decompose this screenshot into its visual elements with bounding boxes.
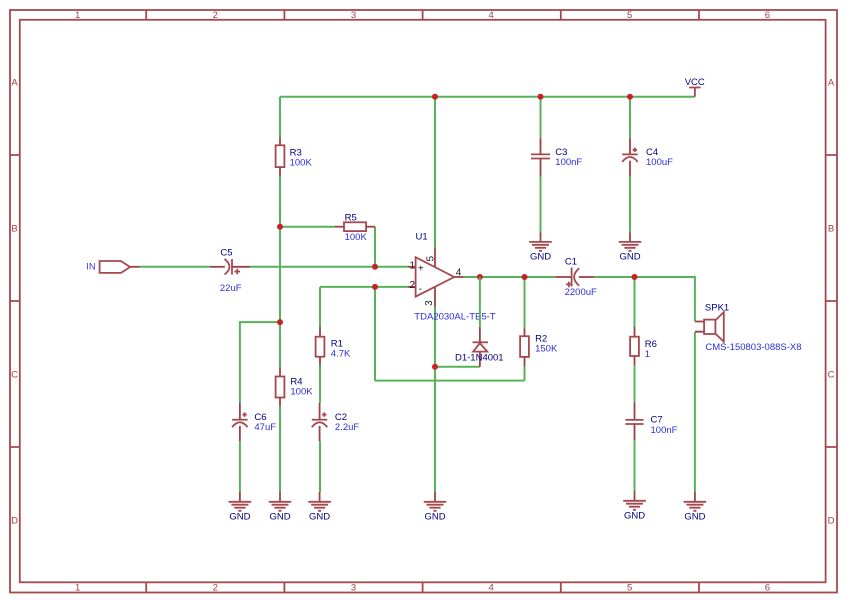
capacitor C4	[622, 138, 673, 176]
wire rail to C3	[540, 97, 542, 138]
svg-text:R5: R5	[345, 212, 357, 223]
capacitor C5	[210, 247, 250, 293]
wire output D1 drop	[479, 277, 481, 327]
junction bias node	[277, 224, 283, 230]
ground C2	[308, 492, 331, 523]
wire IN port to C5	[140, 266, 210, 268]
capacitor C7	[625, 403, 677, 441]
wire rail to U1 pin5	[434, 97, 436, 248]
svg-text:100nF: 100nF	[651, 425, 678, 436]
svg-text:C1: C1	[565, 256, 577, 267]
ground C7	[623, 491, 646, 522]
wire output net to R6	[634, 277, 636, 327]
wire R2 top to output net	[524, 277, 526, 329]
resistor R1	[316, 327, 351, 366]
svg-text:5: 5	[627, 10, 632, 21]
wire C4 to ground	[629, 177, 631, 233]
wire speaker lower pin to ground	[694, 332, 696, 492]
ground C4	[619, 232, 642, 263]
svg-text:TDA2030AL-TB5-T: TDA2030AL-TB5-T	[414, 311, 496, 322]
wire U1 pin3 to ground	[434, 307, 436, 492]
svg-text:4: 4	[488, 583, 493, 594]
svg-text:GND: GND	[269, 512, 290, 523]
svg-text:D: D	[828, 516, 835, 527]
svg-text:2: 2	[410, 280, 416, 291]
wire C6 to ground	[239, 441, 241, 492]
svg-text:5: 5	[425, 256, 436, 262]
svg-text:+: +	[418, 264, 424, 275]
resistor R3	[276, 137, 313, 176]
svg-text:100K: 100K	[290, 158, 313, 169]
svg-text:1: 1	[410, 260, 416, 271]
wire inverting input horizontal	[320, 286, 408, 288]
svg-text:3: 3	[351, 10, 356, 21]
svg-text:4.7K: 4.7K	[331, 348, 351, 359]
capacitor C2	[312, 403, 360, 442]
wire inverting input down to R1	[319, 287, 321, 327]
svg-text:B: B	[828, 224, 834, 235]
svg-text:47uF: 47uF	[254, 422, 276, 433]
svg-text:GND: GND	[530, 252, 551, 263]
resistor R6	[630, 327, 657, 365]
ground C3	[529, 232, 552, 263]
svg-text:100uF: 100uF	[646, 157, 673, 168]
capacitor C1	[555, 256, 597, 298]
svg-text:2200uF: 2200uF	[565, 287, 597, 298]
junction bias-C6	[277, 319, 283, 325]
svg-text:CMS-150803-088S-X8: CMS-150803-088S-X8	[705, 342, 801, 353]
svg-text:100nF: 100nF	[555, 157, 582, 168]
svg-text:100K: 100K	[345, 232, 368, 243]
svg-text:1: 1	[645, 349, 650, 360]
svg-text:VCC: VCC	[685, 77, 705, 88]
svg-text:3: 3	[424, 300, 435, 306]
svg-text:C5: C5	[220, 247, 232, 258]
wire R3 column upper	[279, 97, 281, 138]
junction output-D1	[477, 274, 483, 280]
wire bias node to R5 left	[280, 226, 335, 228]
wire top power rail	[280, 96, 695, 98]
wire R3 column lower to bias node	[279, 176, 281, 322]
svg-text:U1: U1	[416, 232, 428, 243]
svg-text:6: 6	[765, 583, 770, 594]
wire U1 output to C1	[464, 276, 556, 278]
svg-text:GND: GND	[309, 512, 330, 523]
wire rail to C4	[629, 97, 631, 138]
svg-text:GND: GND	[624, 511, 645, 522]
svg-text:22uF: 22uF	[220, 283, 242, 294]
svg-text:100K: 100K	[290, 386, 313, 397]
wire C2 to ground	[319, 441, 321, 492]
svg-text:2.2uF: 2.2uF	[335, 422, 359, 433]
junction output-R2	[522, 274, 528, 280]
svg-text:GND: GND	[229, 512, 250, 523]
svg-text:GND: GND	[684, 512, 705, 523]
port IN	[86, 261, 139, 273]
svg-text:A: A	[828, 78, 835, 89]
svg-text:SPK1: SPK1	[705, 303, 729, 314]
svg-text:4: 4	[488, 10, 493, 21]
svg-text:D: D	[11, 516, 18, 527]
ground U1 pin3	[424, 492, 447, 523]
svg-text:D1-1N4001: D1-1N4001	[455, 353, 504, 364]
wire feedback bottom horizontal	[375, 380, 525, 382]
speaker SPK1	[695, 303, 802, 354]
wire R6 to C7	[634, 365, 636, 402]
wire C3 to ground	[540, 177, 542, 233]
wire R4 to ground	[279, 406, 281, 492]
ground C6	[229, 492, 252, 523]
ground SPK1	[684, 492, 707, 523]
wire feedback up to R2 bottom	[524, 366, 526, 380]
svg-text:1: 1	[75, 583, 80, 594]
op-amp U1	[408, 232, 496, 323]
svg-text:GND: GND	[619, 252, 640, 263]
svg-text:C: C	[11, 370, 18, 381]
wire D1 bottom to pin3 net	[435, 366, 480, 368]
wire C1 to speaker corner	[594, 277, 695, 321]
svg-text:1: 1	[75, 10, 80, 21]
resistor R2	[520, 329, 558, 367]
svg-text:GND: GND	[424, 512, 445, 523]
wire R5 right down to pin1 net	[374, 227, 376, 267]
junction pin3-D1	[432, 364, 438, 370]
capacitor C6	[232, 403, 276, 442]
resistor R4	[276, 368, 314, 407]
svg-text:-: -	[419, 284, 422, 295]
power flag VCC	[685, 77, 705, 97]
wire bias node to C6 branch	[240, 322, 280, 403]
svg-text:B: B	[11, 224, 17, 235]
junction rail-C4	[627, 94, 633, 100]
svg-text:A: A	[11, 78, 18, 89]
junction rail-pin5	[432, 94, 438, 100]
junction pin2 node	[372, 284, 378, 290]
junction output-R6	[632, 274, 638, 280]
svg-text:2: 2	[213, 583, 218, 594]
svg-text:4: 4	[456, 268, 462, 279]
junction pin1 node	[372, 264, 378, 270]
wire R1 to C2	[319, 366, 321, 403]
svg-text:3: 3	[351, 583, 356, 594]
wire C5 to U1 pin1	[250, 266, 408, 268]
ground R4	[269, 492, 292, 523]
diode D1	[455, 327, 504, 367]
wire feedback from pin2 node down	[374, 287, 376, 381]
svg-text:2: 2	[213, 10, 218, 21]
svg-text:150K: 150K	[535, 344, 558, 355]
svg-text:5: 5	[627, 583, 632, 594]
resistor R5	[335, 212, 375, 243]
junction rail-C3	[538, 94, 544, 100]
wire bias node to R4	[279, 322, 281, 367]
svg-text:6: 6	[765, 10, 770, 21]
svg-text:C: C	[828, 370, 835, 381]
capacitor C3	[531, 138, 582, 176]
wire C7 to ground	[634, 440, 636, 491]
svg-text:IN: IN	[86, 262, 96, 273]
